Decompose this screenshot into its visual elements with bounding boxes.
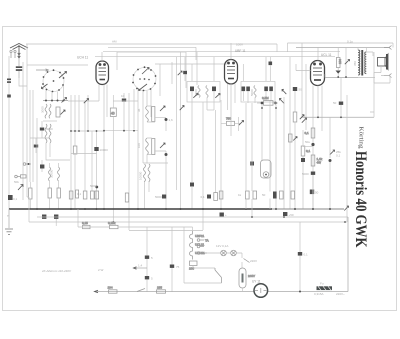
ground lead [8,209,10,228]
cathode resistor R15 [305,128,315,138]
capacitor C4 [8,195,18,201]
wire band x85 [84,101,86,191]
wire x29 [27,197,29,222]
trimmer arrow at 64,98 [62,98,67,103]
resistor R28 [108,286,118,294]
capacitor C1 antenna series [16,58,22,78]
wire heater to switch [193,266,215,269]
svg-text:TA: TA [205,239,209,243]
wire band x71 [70,95,72,209]
wire x172 [171,227,173,292]
resistor R13 [301,130,310,209]
wire y64 to tube3 [155,63,227,65]
dial lamp LP2 [231,250,237,256]
wire x302 [301,43,303,117]
capacitor C7 [121,93,126,102]
capacitor C35 [269,57,273,81]
capacitor C2 [40,121,53,138]
wire x33 [32,90,34,182]
trimmer arrow socket S2 top [142,68,149,75]
node row y100 [43,100,68,102]
capacitor C22 [155,195,166,200]
tube U2 UBF11 [225,60,238,85]
speaker LS [378,54,389,70]
phono terminal P3 [197,252,207,255]
resistor R35 [289,134,298,142]
feedback arrow [300,115,304,120]
wire x160 [159,64,161,96]
capacitor C37 [250,162,254,166]
trimmer arrow socket S2 bottom [139,84,148,91]
wire socket2 pins down [134,89,151,209]
resistor R24 [280,191,284,199]
svg-text:50: 50 [262,193,266,197]
resistor R16 [311,155,322,166]
phono terminal P1 [197,239,208,243]
capacitor C3 [34,138,38,153]
resistor R3 [73,146,77,209]
wire x295 [294,91,296,112]
svg-text:1k: 1k [238,193,242,197]
wire x306 [305,64,307,130]
wire tube3 pins [228,43,236,136]
oscillator coil L1a [45,104,47,118]
antenna [10,44,28,59]
antenna terminal A1 [10,50,12,58]
svg-text:UBF 11: UBF 11 [235,49,246,53]
wire x284 [283,97,285,209]
junction dots y100 [45,100,65,102]
capacitor C31 [54,215,58,227]
svg-text:105: 105 [189,267,194,271]
resistor R30 [29,188,32,199]
svg-text:0,1: 0,1 [306,149,311,153]
wire antenna into band switch [19,78,27,86]
bus end arrow [344,206,348,211]
svg-text:220V~: 220V~ [336,292,345,296]
wire y146 [303,146,313,148]
wire x172 top [171,62,173,84]
wire band x75 [74,95,76,146]
wire coil bottoms [46,143,70,160]
coil L8b [58,167,60,181]
wire T1 pins [192,57,214,209]
top line y39 [26,44,277,52]
resistor R22 [253,191,257,199]
svg-text:5000: 5000 [90,184,97,188]
wire y283 [184,282,222,284]
wire x124 [123,102,125,131]
IF coil L6 [206,86,208,98]
node row y130 mid [104,130,138,132]
wire socket pins down [46,86,64,101]
svg-text:50: 50 [299,88,303,92]
node line y65 [27,64,88,66]
svg-text:185: 185 [157,286,162,290]
svg-text:50u: 50u [305,140,310,144]
switch S3 [215,268,222,283]
svg-text:Fu: Fu [320,282,324,286]
wire heater top [191,227,193,231]
heater chain UBF11 [190,240,205,249]
tube socket S1 [42,69,64,92]
bottom box top [129,230,203,232]
tube U1 UCH11 [96,61,109,85]
wire x262 down [261,105,263,160]
svg-text:2F-Allstrom 110-240V: 2F-Allstrom 110-240V [41,269,72,273]
resistor R33 [76,190,79,198]
wire x290 [289,57,291,209]
capacitor C13 [246,87,250,102]
wire x246 [245,103,247,209]
heater chain UCL11 [190,249,205,260]
wire ballast [242,288,244,291]
wire x238 [238,117,240,131]
wire x176 [176,57,178,190]
wire x374 [370,52,374,117]
wire band x88 [87,95,89,131]
capacitor C11 [212,87,216,102]
ballast tube U4 [239,268,255,288]
svg-text:0,1: 0,1 [201,195,206,199]
svg-text:100: 100 [137,143,141,148]
pointer arrow to S1 [36,69,49,71]
wire x23 [22,62,24,200]
grid wire y70 [296,64,311,71]
capacitor C8 [165,118,174,131]
rail y222 [29,221,347,223]
svg-text:0,1: 0,1 [77,192,82,196]
wire x215 [215,110,217,193]
trimmer arrow T1a [193,94,198,98]
svg-text:5000: 5000 [155,195,162,199]
capacitor C14 [264,87,268,102]
pickup jack J3 [261,160,272,178]
oscillator coil L2b [49,124,51,143]
wire x300 [299,222,301,291]
capacitor C33 [7,79,11,83]
trimmer arrow x346 [345,48,350,78]
IF coil L7 [254,86,256,98]
resistor R26 [108,221,118,229]
svg-text:100V: 100V [236,43,243,47]
wire tube4 pins [313,48,322,144]
output transformer primary [358,50,360,75]
trimmer arrow x303 [302,118,307,123]
svg-text:50k: 50k [14,180,19,184]
wire speaker bottom [349,66,390,83]
resistor R17 [125,193,128,202]
label box 40 [110,108,116,116]
trimmer arrow socket S1 top [59,72,67,79]
junction dots y117 [317,116,342,118]
phono terminal J1 [23,163,31,166]
capacitor C10 [190,87,194,102]
long AVC line y57 [95,56,335,58]
svg-text:6,15: 6,15 [82,221,88,225]
capacitor C18 [333,77,343,117]
anode junction y77 [325,74,358,78]
svg-text:UCL 11: UCL 11 [321,53,332,57]
diode switch S2 [18,185,23,191]
trimmer arrow T1b [215,94,220,98]
resistor R6 [91,191,95,199]
capacitor C9 [155,151,167,209]
resistor R19 [214,193,218,201]
capacitor C16 [293,87,302,92]
wire x203 [202,102,204,230]
wire x147 [146,227,148,292]
capacitor C32 [183,57,187,81]
wire y121 [43,120,57,122]
speaker terminals [384,46,392,78]
coil L8a [49,167,51,181]
IF transformer T2 box [241,82,275,103]
resistor R4 [69,191,73,199]
top box y47 [108,47,196,60]
tube socket S2 [132,66,156,91]
screen resistor R14 [336,48,342,71]
svg-text:0,1: 0,1 [304,253,309,257]
terminal J2 [15,175,21,178]
top box right y41 [288,43,394,52]
capacitor C38 [301,158,305,162]
junction dots volume [261,107,277,109]
capacitor C28 [298,252,308,257]
resistor R20 [219,191,223,199]
svg-text:2 W: 2 W [98,268,104,272]
svg-text:UBF11: UBF11 [195,234,204,238]
resistor R27 heater [189,261,197,271]
heater wire y227 [78,226,191,228]
resistor R34 [82,221,90,229]
resistor R31 [48,188,51,198]
resistor R10 750 [221,117,240,126]
trimmer arrow x85 [84,99,89,104]
mains arrow left [95,290,99,292]
detector arrow [282,89,286,94]
resistor R25 [291,191,295,199]
AF choke L9b [148,164,150,182]
svg-text:4W: 4W [317,161,322,165]
resistor R23 [262,192,277,199]
trimmer arrow socket S1 left [42,84,48,89]
wire y117 [155,117,166,119]
electrolytic C23 [220,213,228,218]
output rail y47 [296,47,390,49]
switch S4 [137,289,145,292]
svg-text:5000: 5000 [302,172,309,176]
wire x27 down [26,65,28,197]
wire x270 [269,101,271,209]
wire x49 x58 to bus [30,182,58,209]
capacitor C20 [329,117,332,209]
wire lamps line [207,253,242,258]
heater chain UCH11 [190,231,205,240]
junction dots y217 [112,216,346,223]
output transformer secondary [365,52,367,74]
mains wire y291 [95,291,348,293]
resistor R18 [201,195,212,200]
junction dots bus [36,208,331,210]
wire x129 [128,93,130,230]
capacitor C12 [242,87,246,102]
wire x252 [251,103,253,217]
volume pot R11 [257,96,278,105]
capacitor C39 [310,190,319,195]
wire y106 top connect [147,106,155,122]
svg-text:100: 100 [338,59,342,64]
trimmer arrow x240 [239,121,244,126]
svg-text:1,6: 1,6 [169,118,174,122]
wire x30 [29,90,31,182]
tube U3 UCL11 [311,61,325,86]
svg-text:Honoris 40 GWK: Honoris 40 GWK [352,151,369,248]
capacitor C15 [269,87,273,102]
resistor R21 [246,191,250,199]
junction dots y130 mid [103,130,135,132]
svg-text:T: T [7,214,9,218]
svg-text:0,1: 0,1 [13,197,18,201]
chassis bus dark [9,208,272,210]
svg-text:+50: +50 [289,213,294,217]
phono terminal P2 [197,245,204,248]
oscillator coil L1b [49,104,51,118]
wire y153 [71,153,97,155]
output transformer core [361,50,363,76]
svg-text:0,1: 0,1 [305,131,310,135]
osc padder coil L3 [146,106,149,122]
current regulator UR1 [252,280,268,298]
chassis bus right [272,208,344,210]
junction dot x300 [299,291,301,293]
wire band x79 [78,95,80,131]
power box right edge [347,217,349,292]
tone arrow y268 [98,264,147,273]
wire x276 down [275,105,277,209]
trimmer arrow C32 [178,71,182,75]
oscillator coil L2a [45,124,47,143]
resistor R2 [21,175,27,178]
wire y101 to tube [68,100,99,102]
trimmer arrow x180 [180,106,184,111]
capacitor C36 [190,183,194,187]
dial lamp LP1 [221,250,227,256]
resistor R7 [95,191,99,199]
electrolytic C17 [336,71,341,78]
wire choke ends [145,182,150,209]
wire corner x197 [196,52,198,85]
wire x78 drop [77,209,79,227]
svg-text:UY 11: UY 11 [252,280,261,284]
svg-text:0,315A: 0,315A [314,292,324,296]
volume wiper arrow [280,98,285,103]
ground [5,229,13,235]
capacitor C25 [145,256,153,261]
svg-text:220V: 220V [250,259,257,263]
wire transformer top [358,48,373,57]
wire top box left [26,44,28,65]
antenna terminal A2 [14,50,16,58]
capacitor C34 [7,95,11,98]
osc padder resistor R9 [152,139,155,155]
electrolytic C24 [283,212,294,217]
trimmer arrow osc B [160,143,165,148]
svg-text:40: 40 [111,112,115,116]
svg-text:AM: AM [112,40,117,44]
svg-text:5000: 5000 [250,89,254,96]
wire T2 pins [243,57,266,103]
resistor R5 [83,191,87,199]
wire y101b [113,100,138,102]
wire x184 [183,227,185,283]
cathode cap C19 [305,140,315,209]
fuse F1 [314,282,345,297]
wire x345 [346,95,348,222]
wire x37 [36,118,38,209]
resistor R1 [56,107,65,117]
IF coil L5 [198,86,200,98]
capacitor C26 [145,276,153,281]
wire band x92 [91,131,93,191]
svg-text:12V 0,1A: 12V 0,1A [216,244,228,248]
wire x180 [180,52,182,209]
resistor R32 [57,188,60,198]
junction dots y77 [337,76,347,78]
band box socket2 [117,52,186,88]
capacitor C30 [42,215,46,219]
svg-text:240V: 240V [248,274,255,278]
capacitor C5 [94,147,108,152]
svg-text:Körting: Körting [358,127,365,149]
AF choke L9a [144,164,146,182]
svg-text:10000: 10000 [139,171,143,180]
svg-text:0,1: 0,1 [336,154,341,158]
svg-text:10000: 10000 [100,148,109,152]
svg-text:30000: 30000 [50,169,54,178]
switch arrow mains upper [242,259,257,269]
svg-text:0,5M: 0,5M [262,96,269,100]
capacitor C21 [302,172,315,210]
svg-text:104: 104 [108,286,113,290]
svg-text:75: 75 [176,265,180,269]
trimmer arrow 25k [330,150,342,158]
node row y131 [71,130,104,132]
wire x221 [220,100,222,209]
wire coil L8 connections [42,160,59,188]
junction dots y131 [70,130,97,132]
IF transformer T1 box [187,82,220,103]
wire y138 [30,137,49,139]
wire band x96 [96,131,98,209]
trimmer arrow osc A [160,106,165,111]
svg-text:10: 10 [121,94,125,98]
svg-text:50: 50 [333,101,337,105]
svg-text:50: 50 [315,191,319,195]
svg-text:0,15k: 0,15k [108,221,116,225]
capacitor C6 [90,184,98,188]
svg-text:750: 750 [226,117,231,121]
resistor R29 [157,286,166,294]
rail y217 [37,216,348,218]
wire left rail x9 [8,56,10,209]
resistor R12 [293,112,297,209]
osc padder coil L4 [146,138,149,155]
svg-text:350: 350 [353,61,357,66]
svg-text:UCH 11: UCH 11 [77,56,88,60]
svg-text:5000: 5000 [46,127,53,131]
svg-text:1,4: 1,4 [138,264,143,268]
